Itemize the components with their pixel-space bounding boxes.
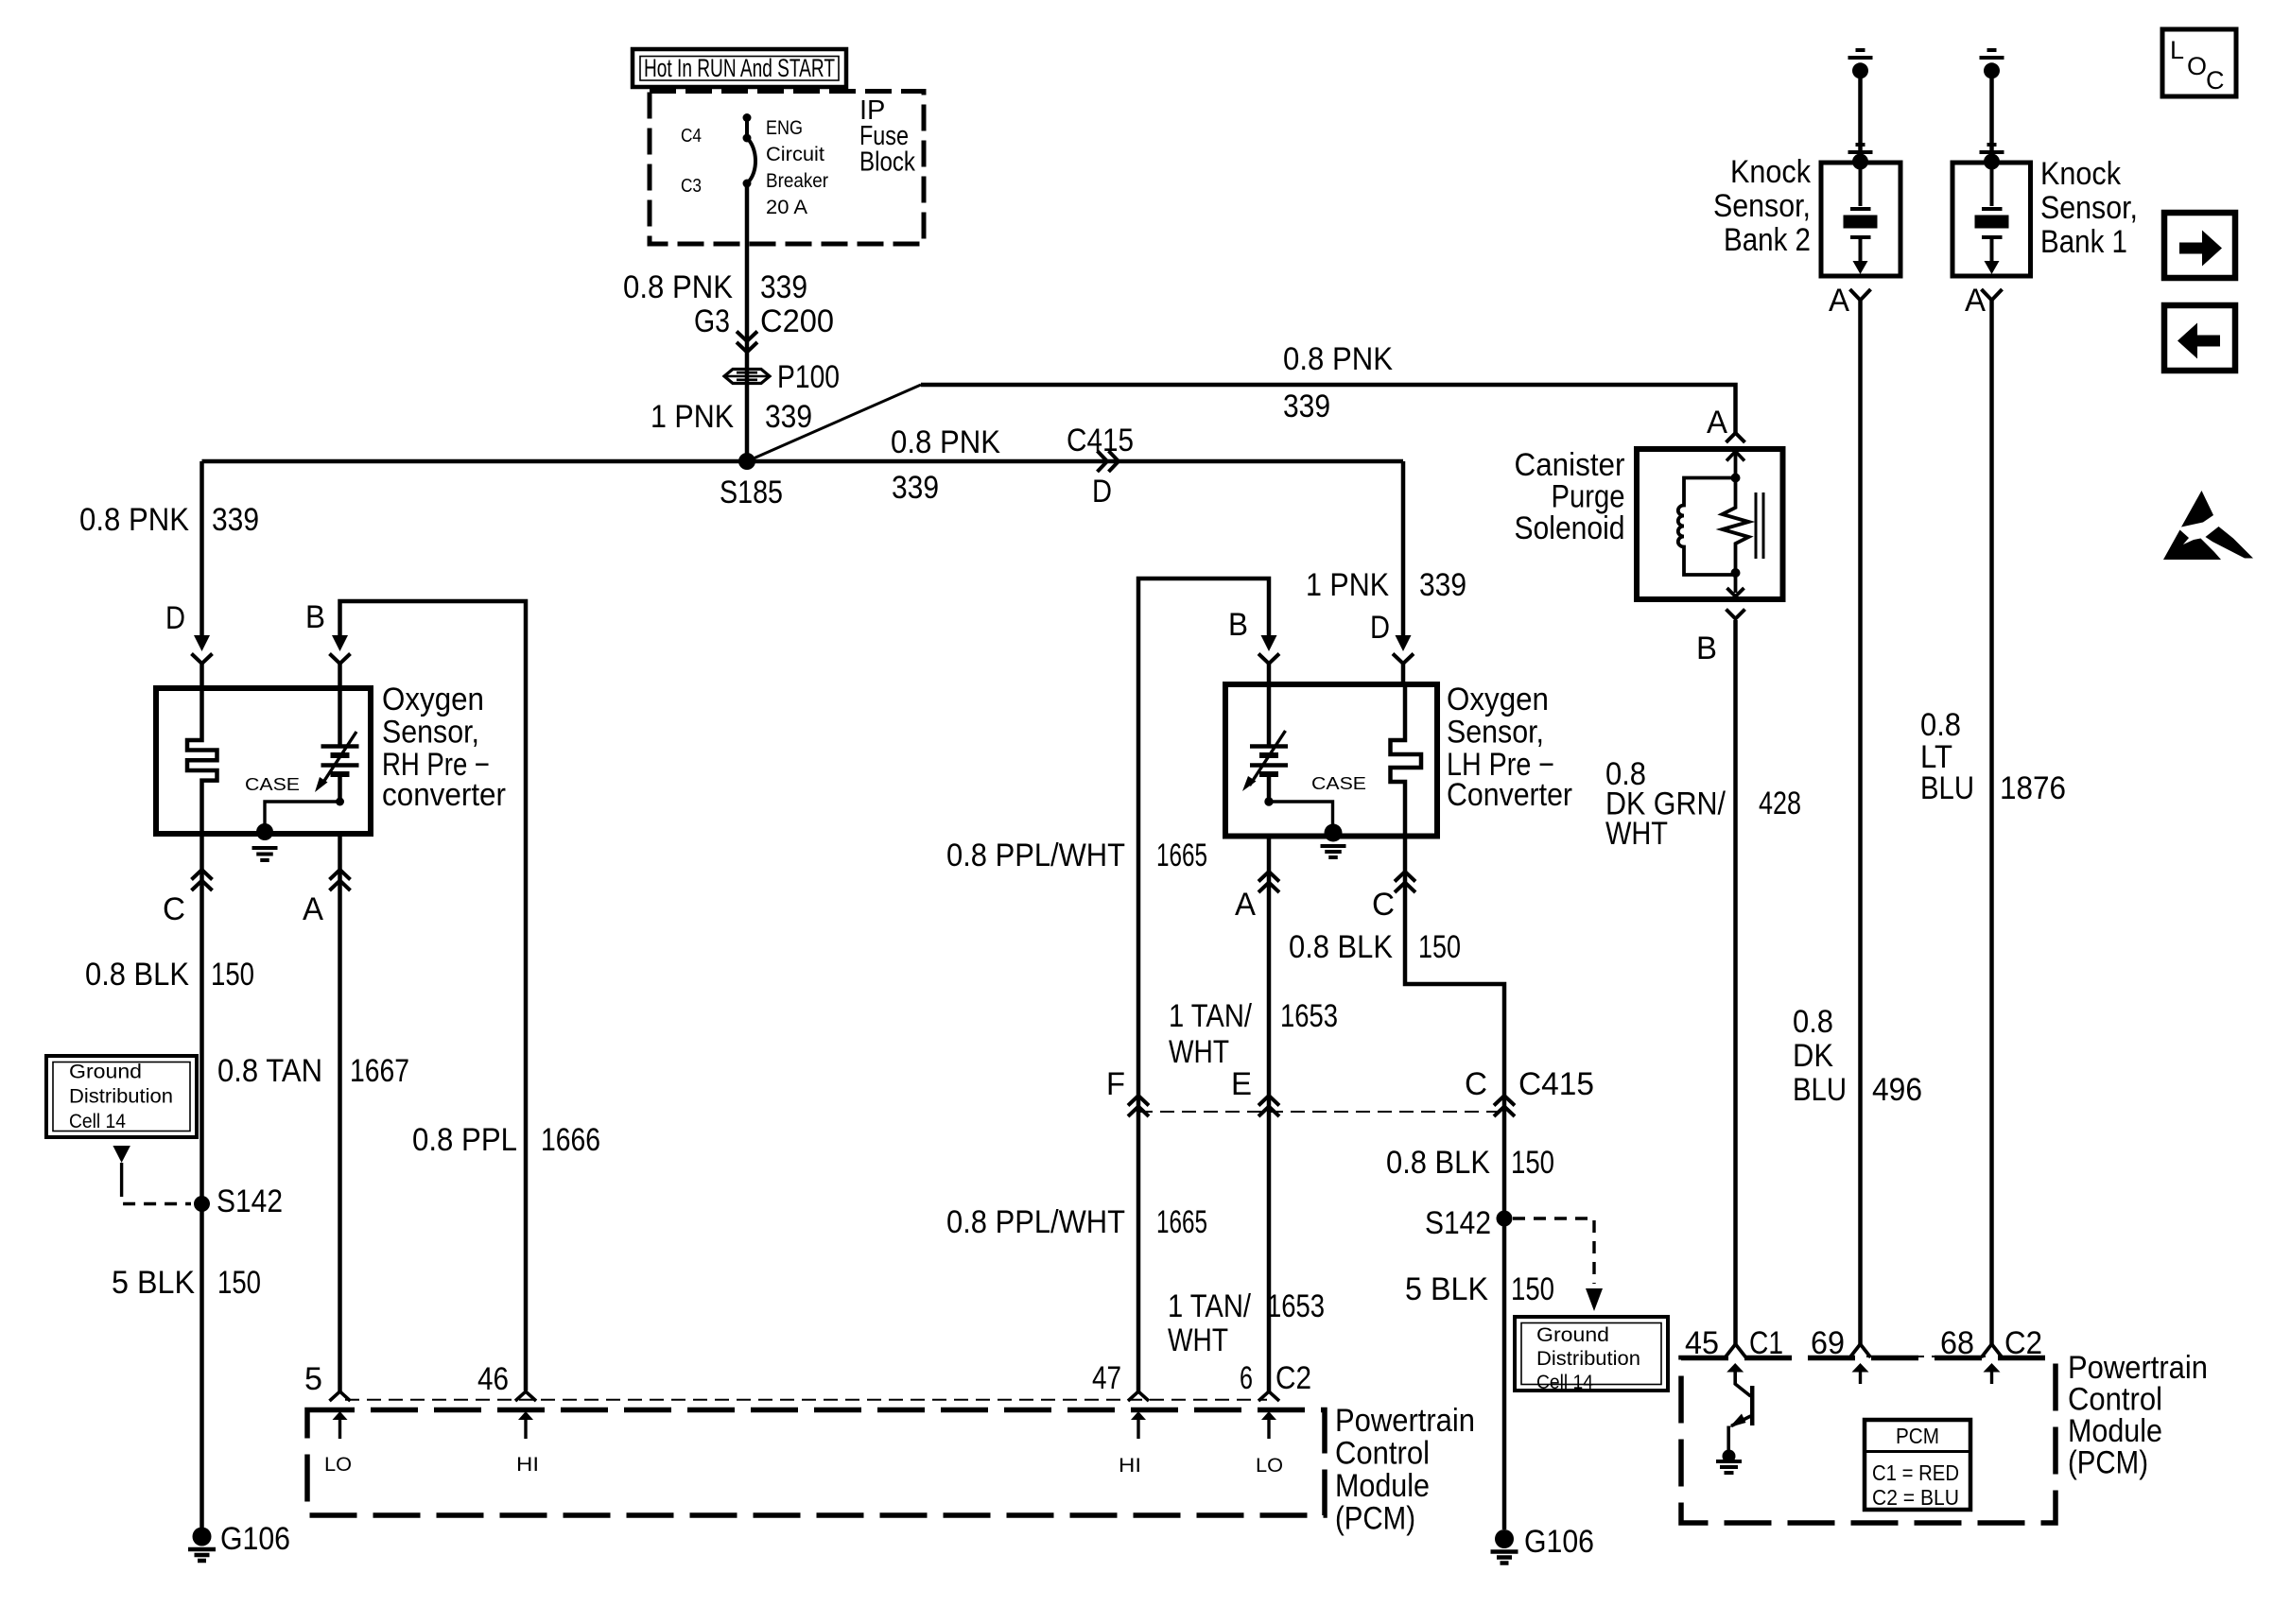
legend box PCM C1=RED C2=BLU xyxy=(1865,1420,1970,1510)
svg-text:Sensor,: Sensor, xyxy=(2040,190,2138,226)
svg-text:Block: Block xyxy=(859,147,915,178)
svg-text:Knock: Knock xyxy=(2040,156,2122,192)
svg-text:Circuit: Circuit xyxy=(766,144,824,165)
internal arrow PCM pin 69 xyxy=(1852,1363,1869,1384)
wire label 0.8 PNK 339 left of C415 xyxy=(891,424,1000,506)
internal arrow PCM pin 47 HI xyxy=(1119,1411,1146,1477)
svg-text:1666: 1666 xyxy=(541,1122,600,1158)
pin label D at bus C415 xyxy=(1092,474,1112,510)
pin label 5 xyxy=(304,1361,322,1397)
svg-text:E: E xyxy=(1231,1066,1252,1102)
svg-text:1653: 1653 xyxy=(1280,998,1338,1034)
connector chevrons LH pin C xyxy=(1395,872,1415,892)
component box Oxygen Sensor LH Pre-Converter xyxy=(1225,684,1437,837)
svg-text:G106: G106 xyxy=(220,1521,290,1557)
svg-text:339: 339 xyxy=(765,399,812,435)
svg-text:0.8 PPL: 0.8 PPL xyxy=(412,1122,517,1158)
label IP Fuse Block xyxy=(859,95,915,178)
wire 150 LH heater ground with jog xyxy=(1405,835,1504,1529)
dashed link from S142 right xyxy=(1513,1218,1594,1284)
wire label 0.8 PPL/WHT 1665 upper xyxy=(946,838,1207,873)
svg-text:0.8 PNK: 0.8 PNK xyxy=(623,269,733,305)
pin label 47 xyxy=(1092,1360,1121,1396)
solenoid resistor xyxy=(1723,474,1749,573)
splice S142 right xyxy=(1497,1211,1513,1227)
svg-text:5 BLK: 5 BLK xyxy=(1405,1271,1488,1307)
connector chevrons C415 pin C xyxy=(1494,1096,1515,1116)
pin label C3 xyxy=(681,175,702,197)
svg-text:1667: 1667 xyxy=(350,1053,409,1089)
svg-text:150: 150 xyxy=(217,1265,261,1301)
svg-text:Converter: Converter xyxy=(1447,777,1572,813)
pin label D LH sensor xyxy=(1370,610,1390,646)
svg-text:339: 339 xyxy=(892,470,939,506)
svg-text:150: 150 xyxy=(1418,929,1461,965)
wire label 0.8 PNK 339 upper right xyxy=(1283,341,1393,424)
svg-text:Module: Module xyxy=(1335,1468,1430,1504)
svg-text:5: 5 xyxy=(304,1361,322,1397)
wire knock sensor bank 1 case xyxy=(1989,78,1994,163)
wire 1667 RH signal low to PCM pin 5 xyxy=(338,832,342,1391)
label C415 at bus xyxy=(1067,423,1134,458)
heater element LH (pins D-C) xyxy=(1391,686,1422,836)
reference arrow from Ground Distribution box left xyxy=(113,1146,130,1184)
connector chevrons LH pin A xyxy=(1258,872,1279,892)
svg-text:0.8 PPL/WHT: 0.8 PPL/WHT xyxy=(946,1204,1125,1240)
label P100 xyxy=(777,359,840,395)
internal arrow PCM pin 46 HI xyxy=(516,1411,539,1476)
pin label D RH sensor xyxy=(165,600,185,636)
connector C415 inline chevrons on bus xyxy=(1098,451,1119,472)
pin label 46 xyxy=(477,1361,509,1397)
CASE wire LH xyxy=(1269,802,1333,824)
svg-text:C2 = BLU: C2 = BLU xyxy=(1872,1485,1959,1510)
connector chevrons RH pin C xyxy=(192,870,213,890)
CASE wire RH xyxy=(265,802,340,826)
connector chevrons C415 pin F xyxy=(1128,1096,1149,1116)
svg-text:A: A xyxy=(1965,283,1986,319)
svg-text:C3: C3 xyxy=(681,175,702,197)
wire label 1 PNK 339 xyxy=(651,399,812,435)
svg-text:1 TAN/: 1 TAN/ xyxy=(1168,1288,1251,1324)
dashed link to S142 left xyxy=(122,1184,191,1204)
pin chevron A knock sensor bank 1 xyxy=(1982,289,2003,301)
svg-text:LO: LO xyxy=(1256,1455,1283,1477)
case connection symbol knock sensor bank 2 top xyxy=(1848,50,1873,78)
circuit breaker ENG 20A xyxy=(743,113,756,188)
component box Knock Sensor Bank 1 xyxy=(1952,163,2031,276)
label S185 xyxy=(720,475,783,510)
svg-text:0.8 BLK: 0.8 BLK xyxy=(1289,929,1393,965)
svg-text:A: A xyxy=(303,891,323,927)
component box Oxygen Sensor RH Pre-converter xyxy=(156,688,371,834)
wire 1653 LH signal low to PCM pin 6 xyxy=(1267,835,1272,1391)
svg-text:A: A xyxy=(1235,887,1256,923)
connector C200 double chevron xyxy=(737,332,757,353)
svg-text:Solenoid: Solenoid xyxy=(1515,510,1625,546)
pin label B solenoid xyxy=(1696,631,1717,666)
svg-text:WHT: WHT xyxy=(1605,816,1668,852)
svg-text:Bank 2: Bank 2 xyxy=(1724,222,1811,258)
navigation box arrow right xyxy=(2164,213,2235,278)
solenoid internal input chevron xyxy=(1726,449,1744,474)
svg-text:1 PNK: 1 PNK xyxy=(651,399,734,435)
pin label C LH xyxy=(1372,887,1395,923)
pin label 6 xyxy=(1240,1360,1253,1396)
wire 1876 knock bank 1 to PCM pin 68 xyxy=(1989,301,1994,1344)
svg-text:1653: 1653 xyxy=(1267,1288,1325,1324)
svg-text:1 TAN/: 1 TAN/ xyxy=(1169,998,1252,1034)
label G106 right xyxy=(1524,1524,1594,1560)
pin chevron PCM 45 xyxy=(1726,1344,1746,1357)
pin chevron PCM 46 xyxy=(515,1391,536,1401)
pin chevron PCM 68 xyxy=(1982,1344,2003,1357)
svg-text:0.8 BLK: 0.8 BLK xyxy=(85,957,189,993)
connector label G3 C200 xyxy=(694,303,834,339)
svg-text:C415: C415 xyxy=(1518,1066,1594,1102)
connector chevrons C415 pin E xyxy=(1258,1096,1279,1116)
wire label 0.8 LT BLU 1876 xyxy=(1920,707,2066,806)
svg-text:C: C xyxy=(163,891,185,927)
wire label 0.8 TAN 1667 xyxy=(217,1053,409,1089)
svg-text:Breaker: Breaker xyxy=(766,170,828,192)
label Oxygen Sensor LH Pre-Converter xyxy=(1447,682,1572,813)
svg-text:C2: C2 xyxy=(1275,1360,1311,1396)
svg-text:CASE: CASE xyxy=(1311,774,1366,793)
svg-text:DK: DK xyxy=(1793,1038,1833,1074)
svg-text:150: 150 xyxy=(1511,1145,1554,1181)
svg-text:Sensor,: Sensor, xyxy=(1713,188,1811,224)
case ground RH xyxy=(252,823,278,860)
solenoid valve bars xyxy=(1756,492,1763,559)
case connection symbol knock sensor bank 2 lower xyxy=(1848,145,1873,170)
svg-text:Canister: Canister xyxy=(1515,447,1625,483)
svg-text:0.8: 0.8 xyxy=(1920,707,1961,743)
svg-text:S185: S185 xyxy=(720,475,783,510)
component box Canister Purge Solenoid xyxy=(1637,449,1783,599)
svg-text:5 BLK: 5 BLK xyxy=(112,1265,195,1301)
svg-text:Powertrain: Powertrain xyxy=(1335,1403,1475,1439)
connector label C415 row xyxy=(1518,1066,1594,1102)
value label ENG Circuit Breaker 20 A xyxy=(766,117,828,218)
svg-text:HI: HI xyxy=(1119,1455,1141,1477)
svg-text:0.8 PNK: 0.8 PNK xyxy=(891,424,1000,460)
pin label 68 xyxy=(1940,1325,1974,1361)
label S142 right xyxy=(1425,1205,1491,1241)
pin chevron PCM 47 xyxy=(1128,1391,1149,1401)
pin label F xyxy=(1106,1066,1125,1102)
svg-text:1665: 1665 xyxy=(1156,838,1207,873)
sensor cell LH (variable battery, pins B-A) xyxy=(1242,686,1288,802)
case connection symbol knock sensor bank 1 lower xyxy=(1980,145,2004,170)
driver transistor Q at pin 45 xyxy=(1726,1363,1752,1450)
svg-text:C1 = RED: C1 = RED xyxy=(1872,1460,1959,1485)
heater element RH (pins D-C) xyxy=(187,690,217,832)
label Powertrain Control Module (PCM) right xyxy=(2068,1350,2208,1481)
svg-text:D: D xyxy=(1370,610,1390,646)
svg-text:0.8 PNK: 0.8 PNK xyxy=(1283,341,1393,377)
pin chevron A canister purge solenoid xyxy=(1726,433,1745,442)
ground G106 right xyxy=(1491,1529,1518,1564)
svg-text:0.8 PPL/WHT: 0.8 PPL/WHT xyxy=(946,838,1125,873)
wire 339 drop to RH oxygen sensor pin D xyxy=(192,461,213,690)
svg-text:150: 150 xyxy=(1511,1271,1554,1307)
pin chevron B solenoid xyxy=(1726,610,1745,619)
pin chevron A knock sensor bank 2 xyxy=(1850,289,1871,301)
connector label C2 left PCM xyxy=(1275,1360,1311,1396)
pin label A knock bank 2 xyxy=(1829,283,1849,319)
svg-text:0.8 PNK: 0.8 PNK xyxy=(79,502,189,538)
svg-text:C200: C200 xyxy=(760,303,834,339)
svg-text:B: B xyxy=(305,599,325,635)
svg-text:ENG: ENG xyxy=(766,117,803,139)
svg-text:Module: Module xyxy=(2068,1413,2162,1449)
svg-text:O: O xyxy=(2187,52,2207,80)
module box Powertrain Control Module left xyxy=(307,1410,1325,1516)
wire 496 knock bank 2 to PCM pin 69 xyxy=(1858,301,1863,1344)
label Canister Purge Solenoid xyxy=(1515,447,1625,546)
svg-text:C: C xyxy=(2206,66,2225,95)
label Knock Sensor Bank 1 xyxy=(2040,156,2138,260)
svg-text:C4: C4 xyxy=(681,125,702,147)
connector C2 thin dashed line left PCM xyxy=(345,1399,1267,1401)
svg-text:S142: S142 xyxy=(1425,1205,1491,1241)
wire label 5 BLK 150 right xyxy=(1405,1271,1554,1307)
svg-text:BLU: BLU xyxy=(1920,770,1974,806)
svg-text:Control: Control xyxy=(2068,1382,2162,1418)
svg-text:Sensor,: Sensor, xyxy=(1447,715,1544,751)
connector label C1 xyxy=(1749,1325,1783,1361)
junction coil bottom xyxy=(1731,568,1741,578)
svg-text:Cell 14: Cell 14 xyxy=(1536,1372,1593,1393)
svg-text:B: B xyxy=(1696,631,1717,666)
svg-text:47: 47 xyxy=(1092,1360,1121,1396)
svg-text:0.8 BLK: 0.8 BLK xyxy=(1386,1145,1490,1181)
solenoid coil xyxy=(1678,478,1736,576)
reference box Ground Distribution Cell 14 left xyxy=(46,1056,197,1137)
svg-text:150: 150 xyxy=(211,957,254,993)
label Powertrain Control Module (PCM) left xyxy=(1335,1403,1475,1537)
svg-text:6: 6 xyxy=(1240,1360,1253,1396)
ground G106 left xyxy=(188,1528,216,1562)
svg-text:WHT: WHT xyxy=(1168,1322,1228,1358)
svg-text:46: 46 xyxy=(477,1361,509,1397)
wire label 1 PNK 339 LH branch xyxy=(1306,567,1466,603)
svg-text:BLU: BLU xyxy=(1793,1072,1847,1108)
wire 339 drop to LH oxygen sensor pin D xyxy=(1393,461,1414,686)
wire label 0.8 BLK 150 mid xyxy=(1386,1145,1554,1181)
svg-text:converter: converter xyxy=(382,777,506,813)
wire 428 solenoid B to PCM pin 45 xyxy=(1733,620,1738,1344)
label box Hot In RUN And START xyxy=(633,49,846,87)
solenoid internal output arrow xyxy=(1727,573,1744,596)
connector C415 thin dashed line xyxy=(1138,1111,1504,1113)
module box Powertrain Control Module right xyxy=(1681,1358,2056,1524)
svg-text:Hot In RUN And START: Hot In RUN And START xyxy=(644,54,835,82)
reference box Ground Distribution Cell 14 right xyxy=(1515,1317,1668,1393)
IP Fuse Block dashed box xyxy=(650,92,924,245)
svg-text:1876: 1876 xyxy=(2000,770,2066,806)
wire 1666 PCM pin 46 up over to RH oxygen sensor pin B xyxy=(330,601,527,1391)
thin dashed connector line right PCM xyxy=(1866,1356,1986,1357)
wire knock sensor bank 2 case xyxy=(1858,78,1863,163)
svg-text:WHT: WHT xyxy=(1169,1034,1229,1070)
svg-text:C: C xyxy=(1465,1066,1487,1102)
pin chevron PCM 5 xyxy=(330,1391,351,1401)
connector label C2 right PCM xyxy=(2004,1325,2042,1361)
svg-text:Knock: Knock xyxy=(1730,154,1812,190)
svg-text:339: 339 xyxy=(1283,389,1330,424)
wire label 0.8 DK GRN/WHT 428 xyxy=(1605,756,1801,852)
splice S142 left xyxy=(194,1196,210,1212)
wire label 1 TAN/WHT 1653 lower xyxy=(1168,1288,1325,1358)
pin label A solenoid xyxy=(1707,405,1727,441)
svg-text:Sensor,: Sensor, xyxy=(382,715,479,751)
svg-text:G3: G3 xyxy=(694,303,730,339)
svg-text:S142: S142 xyxy=(217,1183,283,1219)
wire label 0.8 BLK 150 LH upper xyxy=(1289,929,1461,965)
piezo element knock sensor bank 1 xyxy=(1975,166,2009,274)
svg-text:(PCM): (PCM) xyxy=(1335,1501,1415,1537)
svg-text:Ground: Ground xyxy=(1536,1324,1609,1346)
svg-text:P100: P100 xyxy=(777,359,840,395)
svg-text:A: A xyxy=(1707,405,1727,441)
svg-text:Powertrain: Powertrain xyxy=(2068,1350,2208,1386)
svg-text:(PCM): (PCM) xyxy=(2068,1445,2148,1481)
wire label 1 TAN/WHT 1653 upper xyxy=(1169,998,1338,1070)
pin label B RH sensor xyxy=(305,599,325,635)
wire 339 S185 to canister purge solenoid xyxy=(747,385,1736,461)
pin label 69 xyxy=(1811,1325,1845,1361)
pin label C RH xyxy=(163,891,185,927)
wire label 5 BLK 150 left xyxy=(112,1265,261,1301)
svg-text:428: 428 xyxy=(1759,786,1801,821)
sensor cell RH (variable battery, pins B-A) xyxy=(315,690,359,802)
svg-text:Ground: Ground xyxy=(69,1062,142,1083)
svg-text:339: 339 xyxy=(212,502,259,538)
svg-text:D: D xyxy=(165,600,185,636)
svg-text:A: A xyxy=(1829,283,1849,319)
svg-text:D: D xyxy=(1092,474,1112,510)
case ground LH xyxy=(1321,824,1346,858)
ground at transistor emitter xyxy=(1716,1450,1742,1474)
pin label C at C415 xyxy=(1465,1066,1487,1102)
internal arrow PCM pin 6 LO xyxy=(1256,1411,1283,1477)
connector chevrons RH pin A xyxy=(330,870,351,890)
splice S185 xyxy=(738,453,755,470)
svg-text:PCM: PCM xyxy=(1896,1424,1939,1448)
svg-text:1 PNK: 1 PNK xyxy=(1306,567,1389,603)
svg-text:Bank 1: Bank 1 xyxy=(2040,224,2127,260)
wire label 0.8 PPL 1666 xyxy=(412,1122,600,1158)
svg-text:Distribution: Distribution xyxy=(69,1086,173,1108)
pin label E xyxy=(1231,1066,1252,1102)
svg-text:HI: HI xyxy=(516,1454,539,1476)
svg-text:339: 339 xyxy=(1419,567,1466,603)
svg-text:C415: C415 xyxy=(1067,423,1134,458)
label S142 left xyxy=(217,1183,283,1219)
pin label B LH sensor xyxy=(1228,607,1248,643)
label G106 left xyxy=(220,1521,290,1557)
junction sensor cell to case RH xyxy=(336,798,344,806)
case connection symbol knock sensor bank 1 top xyxy=(1980,50,2004,78)
pin label A RH xyxy=(303,891,323,927)
component box Knock Sensor Bank 2 xyxy=(1821,163,1900,276)
label CASE LH xyxy=(1311,774,1366,793)
svg-text:CASE: CASE xyxy=(245,775,300,794)
svg-text:Oxygen: Oxygen xyxy=(1447,682,1549,717)
label Knock Sensor Bank 2 xyxy=(1713,154,1812,258)
internal arrow PCM pin 5 LO xyxy=(324,1411,352,1476)
svg-text:Cell 14: Cell 14 xyxy=(69,1111,126,1132)
pin label A LH xyxy=(1235,887,1256,923)
svg-text:LO: LO xyxy=(324,1454,352,1476)
svg-text:Control: Control xyxy=(1335,1436,1430,1472)
wire label 0.8 PNK 339 xyxy=(623,269,807,305)
wire label 0.8 DK BLU 496 xyxy=(1793,1004,1922,1108)
label CASE RH xyxy=(245,775,300,794)
wire 339 main bus xyxy=(202,459,1404,464)
svg-text:G106: G106 xyxy=(1524,1524,1594,1560)
svg-text:0.8 TAN: 0.8 TAN xyxy=(217,1053,322,1089)
reference arrow to Ground Distribution box right xyxy=(1586,1288,1603,1311)
svg-text:L: L xyxy=(2170,36,2184,64)
ESD sensitive symbol xyxy=(2163,491,2253,560)
internal arrow PCM pin 68 xyxy=(1984,1363,2001,1384)
pin chevron PCM 69 xyxy=(1850,1344,1871,1357)
svg-text:F: F xyxy=(1106,1066,1125,1102)
wire 1665 PCM pin 47 up over to LH oxygen sensor pin B xyxy=(1138,579,1279,1391)
svg-text:496: 496 xyxy=(1872,1072,1922,1108)
svg-text:C: C xyxy=(1372,887,1395,923)
svg-text:B: B xyxy=(1228,607,1248,643)
junction coil top xyxy=(1731,474,1741,483)
pin label C4 xyxy=(681,125,702,147)
grommet P100 xyxy=(724,370,770,384)
wire label 0.8 PNK 339 left branch xyxy=(79,502,259,538)
svg-text:Distribution: Distribution xyxy=(1536,1348,1640,1370)
svg-text:20 A: 20 A xyxy=(766,197,807,218)
svg-text:Purge: Purge xyxy=(1552,479,1625,515)
wire label 0.8 PPL/WHT 1665 lower xyxy=(946,1204,1207,1240)
svg-text:0.8: 0.8 xyxy=(1793,1004,1833,1040)
pin label A knock bank 1 xyxy=(1965,283,1986,319)
svg-text:1665: 1665 xyxy=(1156,1204,1207,1240)
svg-text:339: 339 xyxy=(760,269,807,305)
junction sensor cell to case LH xyxy=(1264,797,1273,805)
navigation box arrow left xyxy=(2164,305,2235,371)
wire 339 breaker to S185 xyxy=(745,183,750,460)
wire 150 RH heater ground xyxy=(200,832,204,1528)
legend box L O C xyxy=(2162,29,2236,96)
svg-text:Oxygen: Oxygen xyxy=(382,682,484,717)
label Oxygen Sensor RH Pre-converter xyxy=(382,682,506,813)
wire label 0.8 BLK 150 left xyxy=(85,957,254,993)
pin label 45 xyxy=(1685,1325,1719,1361)
piezo element knock sensor bank 2 xyxy=(1844,166,1878,274)
pin chevron PCM 6 xyxy=(1258,1391,1279,1401)
